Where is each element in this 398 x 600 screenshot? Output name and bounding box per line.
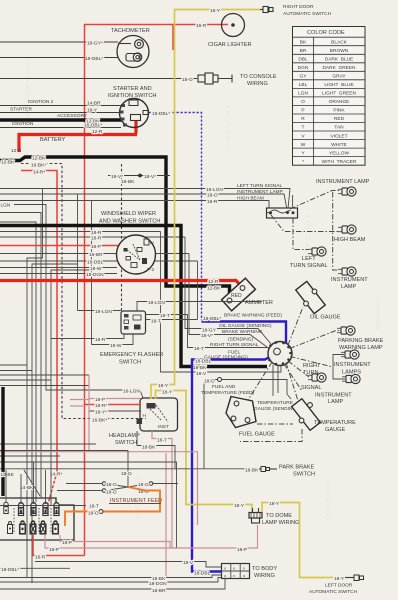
svg-text:18-O: 18-O: [182, 77, 193, 83]
wire 18-O fuel and temperature feed: [201, 378, 291, 469]
svg-text:16-BR: 16-BR: [89, 252, 103, 258]
wire 18-DBL* brake warning feed (blue): [202, 313, 287, 352]
svg-text:SIGNAL: SIGNAL: [301, 385, 322, 391]
svg-text:18-DBL*: 18-DBL*: [1, 567, 19, 573]
svg-text:SWITCH: SWITCH: [293, 472, 315, 478]
svg-text:IGNITION SWITCH: IGNITION SWITCH: [108, 93, 156, 99]
wire 16-R red frame + cigar lighter feed: [85, 23, 229, 134]
wire 18-T flasher second: [146, 318, 198, 324]
wire 18-DBL* to tachometer: [0, 56, 118, 62]
headlamp switch left wires 18-P 18-R* 18-Y*: [89, 397, 141, 403]
svg-text:PARKING BRAKE: PARKING BRAKE: [338, 338, 384, 344]
svg-text:18-R: 18-R: [91, 236, 102, 242]
emergency flasher switch: [100, 311, 163, 366]
svg-text:H: H: [143, 413, 146, 418]
svg-text:BRAKE WARNING: BRAKE WARNING: [222, 329, 263, 335]
dash-dot cluster to fuel gauge: [248, 362, 272, 400]
svg-text:16-LGN: 16-LGN: [123, 389, 140, 395]
svg-text:x: x: [243, 566, 245, 571]
svg-text:16-R: 16-R: [196, 23, 207, 29]
svg-text:LAMP: LAMP: [341, 284, 357, 290]
svg-text:RIGHT: RIGHT: [303, 363, 321, 369]
svg-text:14-BR: 14-BR: [87, 100, 101, 106]
cluster drops to gauges: [273, 365, 278, 396]
wire 18-DGN to body: [0, 578, 222, 588]
wire 18-Y headlamp to dome B: [156, 390, 253, 513]
svg-text:DARK GREEN: DARK GREEN: [322, 65, 356, 71]
svg-text:18-R*: 18-R*: [95, 403, 107, 409]
wire 18-LGN flasher top: [137, 300, 262, 311]
wire 18-DBL* bottom left: [0, 567, 70, 573]
svg-text:RIGHT TURN SIGNAL: RIGHT TURN SIGNAL: [210, 342, 259, 348]
dash-dot cluster to temperature gauge: [286, 363, 299, 405]
svg-text:TURN: TURN: [303, 370, 319, 376]
svg-text:GAUGE: GAUGE: [325, 427, 345, 433]
svg-text:INSTRUMENT LAMP: INSTRUMENT LAMP: [316, 179, 370, 185]
dash-dot cluster to instrument lamps: [290, 357, 331, 367]
svg-text:SWITCH: SWITCH: [115, 440, 137, 446]
svg-text:18-DBL: 18-DBL: [195, 359, 212, 365]
svg-text:AUTOMATIC SWITCH: AUTOMATIC SWITCH: [309, 589, 358, 595]
crossing lines above fuse block: [0, 444, 177, 548]
wire 18-T headlamp bottom / 18-P to dome: [0, 431, 258, 578]
svg-text:18-BK: 18-BK: [142, 445, 156, 451]
svg-text:R: R: [301, 116, 305, 122]
ammeter: [222, 278, 273, 311]
dash-dot cluster to instrument lamp lower: [284, 364, 302, 391]
svg-text:(SENDING): (SENDING): [228, 337, 253, 343]
svg-text:BK: BK: [300, 39, 307, 45]
svg-text:18-V*: 18-V*: [201, 333, 213, 339]
node 18-V*: [108, 174, 170, 185]
svg-text:18-BK: 18-BK: [193, 365, 207, 371]
wire 18-R flasher bottom: [51, 334, 124, 343]
svg-text:RED: RED: [231, 293, 242, 299]
svg-text:F-2: F-2: [147, 267, 155, 273]
svg-text:LAMPS: LAMPS: [342, 370, 361, 376]
starter and ignition switch wires: [0, 99, 121, 106]
wire 18-DBL fuel gauge sending (blue): [192, 350, 271, 572]
svg-text:P: P: [301, 108, 304, 114]
oil gauge: [296, 281, 341, 320]
svg-text:14-BK: 14-BK: [20, 485, 34, 491]
svg-text:12-R: 12-R: [11, 148, 22, 154]
svg-text:HEADLAMP: HEADLAMP: [109, 433, 140, 439]
fuses bottom row: [8, 522, 59, 534]
wire 18-Y dome to left door switch: [262, 501, 345, 582]
svg-text:12-BK: 12-BK: [1, 160, 15, 166]
wire 18-LGN left turn signal: [0, 183, 290, 209]
harness drop: [197, 261, 199, 320]
svg-text:18-Y: 18-Y: [158, 383, 169, 389]
svg-text:18-DBL*: 18-DBL*: [152, 111, 170, 117]
svg-text:18-Y: 18-Y: [210, 8, 221, 14]
svg-text:VIOLET: VIOLET: [330, 133, 347, 139]
wire 18-DBL* dashed from ignition to panel: [149, 111, 202, 320]
svg-text:18-O: 18-O: [207, 193, 218, 199]
svg-text:RETRACTABLE: RETRACTABLE: [305, 213, 312, 260]
svg-text:TEMPERATURE: TEMPERATURE: [314, 420, 356, 426]
svg-text:LEFT DOOR: LEFT DOOR: [325, 583, 353, 589]
svg-text:12-BK: 12-BK: [207, 286, 221, 292]
svg-text:LGN: LGN: [298, 91, 308, 97]
svg-text:LEFT TURN SIGNAL: LEFT TURN SIGNAL: [237, 183, 282, 189]
svg-text:12-BK: 12-BK: [32, 156, 46, 162]
dash-dot block to instrument lamp top: [290, 191, 340, 210]
color code table: [293, 27, 366, 166]
svg-text:18-BK: 18-BK: [245, 468, 259, 474]
svg-text:18-Y: 18-Y: [234, 503, 245, 509]
svg-text:LGN: LGN: [1, 203, 11, 209]
headlamp switch: [109, 398, 178, 446]
svg-text:OIL GAUGE (SENDING): OIL GAUGE (SENDING): [219, 323, 272, 329]
svg-text:LAMP: LAMP: [328, 399, 344, 405]
svg-text:BATTERY: BATTERY: [40, 137, 66, 143]
svg-text:18-O: 18-O: [106, 482, 117, 488]
svg-text:CIGAR LIGHTER: CIGAR LIGHTER: [208, 42, 252, 48]
svg-text:18-LGN: 18-LGN: [148, 300, 165, 306]
circuit breakers top row: [4, 502, 59, 513]
svg-text:18-Y*: 18-Y*: [95, 410, 107, 416]
body wiring connector: [222, 564, 278, 580]
svg-text:18-O: 18-O: [121, 471, 132, 477]
svg-text:18-W: 18-W: [90, 266, 102, 272]
svg-text:18-P: 18-P: [95, 397, 105, 403]
svg-text:18-O: 18-O: [88, 511, 99, 517]
fuel gauge: [226, 397, 275, 438]
svg-text:FUEL AND: FUEL AND: [212, 384, 236, 390]
color code rows: [293, 37, 366, 165]
svg-text:16-P: 16-P: [91, 244, 101, 250]
wire 18-T to cluster right turn: [146, 313, 270, 352]
wire 18-Y headlamp feed A: [151, 14, 175, 399]
svg-text:ACCESSORY: ACCESSORY: [57, 113, 88, 119]
svg-text:EMERGENCY FLASHER: EMERGENCY FLASHER: [100, 352, 163, 358]
svg-text:16-DBL*: 16-DBL*: [84, 122, 102, 128]
wire 16-BK* dashed to headlamp switch: [21, 163, 146, 424]
dash-dot block to left turn lamp: [293, 218, 308, 250]
svg-text:18-W: 18-W: [110, 343, 122, 349]
harness lines left: [0, 189, 92, 583]
svg-text:18-O: 18-O: [106, 489, 117, 495]
svg-text:18-GY*: 18-GY*: [87, 41, 103, 47]
svg-text:PINK: PINK: [333, 108, 345, 114]
ghost print-through texture: [25, 60, 382, 520]
wire 16-R fuse to main: [33, 535, 85, 561]
svg-text:ORANGE: ORANGE: [329, 99, 350, 105]
lamp labels: [290, 179, 384, 405]
svg-text:BR: BR: [300, 48, 307, 54]
svg-text:STARTER AND: STARTER AND: [113, 86, 152, 92]
svg-text:LIGHT BLUE: LIGHT BLUE: [324, 82, 353, 88]
svg-text:LBL: LBL: [299, 82, 308, 88]
svg-text:IGNITION: IGNITION: [12, 121, 34, 127]
svg-text:W: W: [150, 240, 154, 245]
svg-text:18-T: 18-T: [151, 318, 161, 324]
svg-text:WIRING: WIRING: [247, 81, 268, 87]
svg-text:INSTRUMENT: INSTRUMENT: [334, 362, 371, 368]
svg-text:18-DGN: 18-DGN: [149, 581, 167, 587]
windshield wiper and washer switch wires: [0, 230, 161, 236]
pink harness stubs: [70, 375, 89, 450]
starter and ignition switch: [108, 86, 156, 128]
wire 18-BK to body: [0, 575, 222, 582]
wire 18-O orange instrument feed: [65, 487, 160, 526]
svg-text:18-DBL: 18-DBL: [194, 570, 211, 576]
park brake switch connector: [259, 465, 315, 478]
svg-text:18-P: 18-P: [62, 540, 72, 546]
temperature gauge: [292, 399, 356, 433]
svg-text:WARNING LAMP: WARNING LAMP: [339, 345, 383, 351]
svg-text:18-V: 18-V: [196, 371, 207, 377]
svg-text:18-R: 18-R: [95, 337, 106, 343]
left harness horizontals lower: [0, 365, 89, 386]
svg-text:TO CONSOLE: TO CONSOLE: [240, 74, 277, 80]
svg-text:HEATER SW: HEATER SW: [55, 171, 62, 210]
dash-dot fuel to temperature sending loop: [240, 424, 302, 442]
svg-text:DBL: DBL: [298, 57, 308, 63]
svg-text:AND WASHER SWITCH: AND WASHER SWITCH: [99, 219, 160, 225]
svg-text:YELLOW: YELLOW: [329, 150, 349, 156]
svg-text:18-LGN: 18-LGN: [95, 309, 112, 315]
wire 18-BR to body: [0, 579, 225, 595]
temperature gauge sending labels: [254, 400, 298, 412]
instrument feed label: [109, 498, 162, 504]
dome lamp connector: [249, 508, 300, 526]
dash-dot block to high beam lamp: [271, 215, 338, 232]
svg-text:WIRING: WIRING: [254, 573, 275, 579]
svg-text:18-T: 18-T: [157, 438, 167, 444]
wire 18-T instrument: [0, 504, 99, 510]
svg-text:18-T: 18-T: [89, 504, 99, 510]
svg-text:WHITE: WHITE: [331, 142, 346, 148]
heavy red feed 12-R to ammeter: [0, 279, 243, 288]
wire dashed feed to flasher: [121, 164, 123, 311]
wire 12-R battery: [11, 120, 137, 154]
instrument cluster connector: [268, 341, 292, 365]
svg-text:GRAY: GRAY: [332, 74, 346, 80]
svg-text:INSTRUMENT: INSTRUMENT: [315, 393, 352, 399]
svg-text:16-R: 16-R: [35, 555, 46, 561]
svg-text:18-V: 18-V: [183, 560, 194, 566]
svg-text:AMMETER: AMMETER: [245, 300, 273, 306]
wire 18-V to body: [35, 560, 222, 567]
svg-text:TO BODY: TO BODY: [252, 566, 277, 572]
wire 18-W flasher bottom: [92, 334, 134, 349]
svg-text:STARTER: STARTER: [10, 107, 32, 113]
svg-text:INSTRUMENT LAMP: INSTRUMENT LAMP: [237, 189, 283, 195]
svg-text:x: x: [233, 573, 235, 578]
svg-text:COLOR CODE: COLOR CODE: [307, 30, 345, 36]
svg-text:LIGHT GREEN: LIGHT GREEN: [322, 91, 356, 97]
svg-text:BLACK: BLACK: [331, 39, 348, 45]
svg-text:18-LGN: 18-LGN: [206, 187, 223, 193]
svg-text:18-T: 18-T: [194, 346, 204, 352]
svg-text:BRAKE WARNING (FEED): BRAKE WARNING (FEED): [224, 313, 282, 319]
svg-text:SWITCH: SWITCH: [119, 360, 141, 366]
svg-text:DGN: DGN: [298, 65, 309, 71]
svg-text:TURN SIGNAL: TURN SIGNAL: [290, 263, 328, 269]
wire 18-BK to park brake switch: [0, 431, 259, 474]
svg-text:RIGHT DOOR: RIGHT DOOR: [283, 4, 314, 10]
svg-text:RED: RED: [334, 116, 345, 122]
svg-text:HIGH BEAM: HIGH BEAM: [237, 195, 264, 201]
svg-text:14-BK: 14-BK: [1, 472, 15, 478]
instrument feed crossover 18-O: [57, 451, 178, 496]
svg-text:18-DBL*: 18-DBL*: [203, 316, 221, 322]
svg-text:18-Y: 18-Y: [87, 107, 98, 113]
dash-dot cluster to parking brake warning lamp: [290, 331, 341, 349]
left door automatic switch connector: [309, 575, 364, 595]
svg-text:BROWN: BROWN: [330, 48, 349, 54]
wire 12-BK accessory (heavy): [0, 113, 122, 125]
svg-text:18-BK: 18-BK: [121, 179, 135, 185]
svg-text:*: *: [302, 159, 304, 165]
wire 18-GY* to tachometer: [0, 41, 118, 47]
svg-text:TEMPERATURE: TEMPERATURE: [257, 400, 293, 406]
console wiring connector: [198, 73, 277, 87]
svg-text:T: T: [302, 125, 305, 131]
cigar lighter: [208, 14, 252, 49]
svg-text:12-R: 12-R: [92, 129, 103, 135]
feeds into fuse block: [6, 462, 46, 504]
dash-dot vertical lamp feed: [333, 192, 338, 270]
windshield wiper and washer switch: [99, 211, 160, 274]
heavy black feed to instrument cluster 18-BK: [0, 226, 267, 372]
svg-text:18-DBL: 18-DBL: [87, 260, 104, 266]
wire 18-LGN flasher left: [78, 309, 122, 315]
svg-text:18-R: 18-R: [91, 230, 102, 236]
tachometer: [111, 28, 150, 68]
fuse block outline: [0, 498, 74, 540]
svg-text:IGNITION 2: IGNITION 2: [28, 99, 54, 105]
wire 18-V to cluster: [161, 232, 282, 377]
svg-text:18-P: 18-P: [49, 547, 59, 553]
wire 14-BK heavy: [1, 387, 35, 496]
svg-text:18-R: 18-R: [207, 199, 218, 205]
svg-text:18-Y: 18-Y: [269, 501, 280, 507]
svg-text:18-T: 18-T: [160, 313, 170, 319]
svg-text:OIL GAUGE: OIL GAUGE: [310, 315, 341, 321]
svg-text:O: O: [301, 99, 305, 105]
svg-text:W: W: [301, 142, 306, 148]
wire 14-R*: [21, 170, 62, 512]
svg-text:GY: GY: [300, 74, 308, 80]
svg-text:WITH TRACER: WITH TRACER: [322, 159, 357, 165]
svg-text:16-BK*: 16-BK*: [31, 163, 46, 169]
svg-text:18-DBL*: 18-DBL*: [85, 56, 103, 62]
svg-text:14-R*: 14-R*: [50, 472, 62, 478]
svg-text:INSTRUMENT: INSTRUMENT: [331, 277, 368, 283]
svg-text:COLOR DGN: COLOR DGN: [325, 480, 332, 520]
svg-text:12-R: 12-R: [208, 279, 219, 285]
svg-text:TACHOMETER: TACHOMETER: [111, 28, 150, 34]
svg-text:WINDSHIELD WIPER: WINDSHIELD WIPER: [101, 211, 156, 217]
junction battery feed / bulkhead: [0, 156, 230, 299]
svg-text:18-O: 18-O: [138, 482, 149, 488]
wire 18-GY oil gauge sending: [185, 237, 272, 344]
svg-text:DARK BLUE: DARK BLUE: [325, 57, 354, 63]
svg-text:WARNING: WARNING: [375, 299, 382, 330]
svg-text:PARK BRAKE: PARK BRAKE: [279, 465, 315, 471]
svg-text:x: x: [224, 566, 226, 571]
svg-text:TEMPERATURE (FEED): TEMPERATURE (FEED): [201, 390, 255, 396]
svg-text:AUTOMATIC SWITCH: AUTOMATIC SWITCH: [283, 11, 332, 17]
wire 18-R high beam: [0, 195, 269, 211]
svg-text:TAN: TAN: [334, 125, 344, 131]
wire 18-O to console: [0, 77, 197, 83]
svg-text:18-O: 18-O: [204, 379, 215, 385]
wire 18-V* brake warning sending: [189, 254, 267, 348]
svg-text:18-BR: 18-BR: [152, 588, 166, 594]
wire 16-R vertical down left side: [84, 134, 86, 556]
svg-text:18-V*: 18-V*: [144, 174, 156, 180]
dash-dot cluster to oil gauge: [288, 307, 303, 345]
svg-text:HIGH BEAM: HIGH BEAM: [334, 237, 366, 243]
svg-text:16-BK*: 16-BK*: [92, 418, 107, 424]
right door automatic switch connector: [260, 4, 332, 17]
svg-text:FUEL GAUGE: FUEL GAUGE: [239, 432, 275, 438]
svg-text:INST: INST: [158, 424, 169, 430]
wire 18-Y right door: [175, 8, 261, 14]
svg-text:18-Y: 18-Y: [162, 390, 173, 396]
svg-text:CONSOLE BLK: CONSOLE BLK: [225, 103, 232, 150]
wire 18-P fuse outputs: [45, 535, 178, 553]
turn signal connector block: [267, 195, 298, 218]
lamp symbols: [308, 187, 360, 384]
svg-text:LAMP WIRING: LAMP WIRING: [262, 520, 300, 526]
instrument lamps bracket: [333, 355, 345, 380]
svg-text:TO DOME: TO DOME: [266, 513, 292, 519]
svg-text:14-R*: 14-R*: [33, 170, 45, 176]
svg-text:LEFT: LEFT: [302, 256, 316, 262]
svg-text:18-P: 18-P: [237, 547, 247, 553]
wire 18-O instrument lamp: [0, 189, 287, 210]
svg-text:18-DGN: 18-DGN: [86, 272, 104, 278]
wire 16-LGN to headlamp switch: [1, 203, 144, 399]
dash-dot cluster to right turn lamp: [288, 361, 309, 377]
svg-text:18-GY: 18-GY: [202, 327, 217, 333]
svg-text:18-Y: 18-Y: [334, 576, 345, 582]
